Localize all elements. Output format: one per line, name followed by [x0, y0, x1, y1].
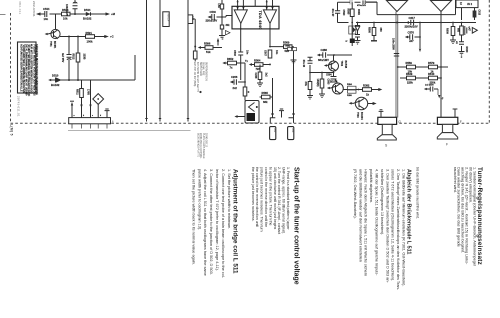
transistor T551: [51, 29, 60, 38]
terminal down arrow: [419, 49, 421, 53]
resistor R653: [243, 87, 247, 96]
svg-text:1k: 1k: [431, 70, 434, 74]
svg-text:R609: R609: [446, 28, 449, 34]
ground: [459, 52, 465, 56]
wire: [97, 104, 99, 117]
resistor R652: [228, 61, 237, 65]
bracket connector: [270, 118, 293, 123]
svg-text:R595: R595: [347, 9, 350, 15]
svg-text:rauschfrei wird.: rauschfrei wird.: [453, 167, 457, 193]
capacitor C544: [45, 11, 47, 17]
svg-text:2. Connect one test probe of a: 2. Connect one test probe of a twin beam…: [221, 169, 225, 279]
svg-text:51k: 51k: [206, 50, 211, 54]
svg-text:1k: 1k: [366, 92, 369, 96]
svg-text:NUR MIT ISOLIERTEM WERKZEUG AU: NUR MIT ISOLIERTEM WERKZEUG AUSGE-: [30, 44, 33, 94]
speaker LS1 stub: [379, 110, 384, 118]
svg-text:C266: C266: [231, 75, 238, 79]
svg-text:3. Den zweiten Tastkopf zwisch: 3. Den zweiten Tastkopf zwischen den Dio…: [385, 169, 389, 283]
svg-text:u07: u07: [409, 39, 414, 43]
svg-text:R569: R569: [283, 41, 290, 45]
terminal arrow: [208, 16, 211, 19]
module zigzag: [249, 103, 255, 112]
op-amp U1 box TDA4940: [232, 6, 279, 29]
diode D544: [86, 12, 91, 16]
svg-text:10n: 10n: [275, 50, 278, 55]
wire loop top: [338, 2, 477, 22]
ground bar: [371, 40, 377, 42]
terminal into module: [236, 116, 245, 118]
svg-text:47u 4P: 47u 4P: [331, 9, 334, 17]
wire x272 drop: [260, 65, 273, 118]
svg-text:R511: R511: [76, 89, 79, 95]
resistor R580: [373, 23, 375, 41]
svg-text:R564: R564: [254, 59, 261, 63]
ground: [355, 41, 361, 45]
svg-text:+F: +F: [441, 99, 444, 101]
svg-text:Hinweis: Nach dem Abgleich die: Hinweis: Nach dem Abgleich die Spule L 5…: [364, 169, 368, 276]
svg-text:pulse width (refer to oscillog: pulse width (refer to oscillogram 13).: [197, 169, 201, 230]
svg-text:C613: C613: [478, 10, 480, 16]
arrow mark: [80, 105, 82, 109]
svg-text:10k: 10k: [63, 16, 68, 20]
svg-text:C576: C576: [408, 30, 415, 34]
svg-text:schließen (Oszillogramm 13 bea: schließen (Oszillogramm 13 beachten).: [380, 169, 384, 235]
bracket hooks: [271, 112, 295, 118]
svg-text:the control in the reverse dir: the control in the reverse direction unt…: [255, 167, 259, 227]
text english col2 body: [191, 169, 230, 279]
left column x310: [308, 57, 313, 95]
svg-text:1n5 250V: 1n5 250V: [425, 85, 434, 87]
svg-text:223B: 223B: [83, 54, 86, 60]
pcb label text: [197, 133, 207, 159]
svg-text:R652: R652: [227, 57, 234, 61]
resistor R284 R286: [348, 86, 357, 89]
capacitor C268: [258, 72, 262, 80]
svg-text:68k: 68k: [263, 100, 268, 104]
capacitor C546: [73, 0, 78, 14]
svg-text:203: 203: [291, 128, 294, 133]
svg-text:BEDIENUNGS-PLATTE: BEDIENUNGS-PLATTE: [197, 133, 200, 157]
wire row y78: [400, 77, 441, 79]
svg-text:7x: 7x: [230, 66, 233, 70]
terminal arrow +M: [103, 13, 107, 15]
resistor R511: [80, 89, 84, 98]
wire x222 column: [221, 0, 223, 36]
svg-text:L59: L59: [217, 4, 220, 9]
svg-text:D510: D510: [52, 74, 59, 78]
svg-text:R623: R623: [465, 47, 468, 53]
wire out tip 2: [269, 23, 271, 64]
svg-text:F: F: [446, 143, 448, 147]
pin wires top 2: [267, 0, 273, 10]
svg-text:R580: R580: [368, 27, 371, 33]
coil L59: [220, 4, 223, 9]
svg-text:5k6: 5k6: [285, 49, 290, 53]
resistor R512: [76, 53, 80, 62]
svg-text:C584: C584: [326, 74, 332, 77]
svg-text:10k: 10k: [408, 70, 413, 74]
svg-text:15) anti-clockwise until noise: 15) anti-clockwise until noise just begi…: [273, 167, 277, 230]
svg-text:R565: R565: [262, 91, 269, 95]
svg-text:k: k: [345, 41, 348, 43]
svg-text:R512: R512: [72, 54, 75, 60]
svg-text:SUPPLY AND: SUPPLY AND: [199, 62, 202, 76]
terminal base: [329, 87, 331, 89]
resistor R521: [86, 35, 95, 39]
svg-text:470u/16V: 470u/16V: [357, 4, 367, 7]
wire stub to IC: [226, 15, 232, 17]
ground: [307, 96, 313, 100]
IC2 box: [377, 0, 456, 15]
svg-text:29743-011.01: 29743-011.01: [17, 96, 21, 117]
dashed border right: [488, 0, 490, 123]
terminal arrow left: [38, 13, 42, 15]
capacitor C288: [323, 52, 326, 58]
speaker LS1 box: [378, 117, 397, 124]
wire y80: [50, 79, 135, 81]
terminal arrow: [222, 62, 225, 65]
pin wires top 1: [238, 0, 256, 10]
pcb edge line: [68, 130, 191, 132]
svg-text:2200u/16V: 2200u/16V: [405, 25, 418, 29]
svg-text:C540: C540: [210, 10, 217, 14]
svg-text:EXT./INT. DC 607 (BVB): EXT./INT. DC 607 (BVB): [193, 62, 195, 87]
capacitor top: [350, 0, 352, 4]
svg-text:PLATE FLACH-SIGNALE: PLATE FLACH-SIGNALE: [202, 133, 205, 159]
svg-text:1. Set the picture width to mi: 1. Set the picture width to minimum.: [227, 169, 231, 229]
capacitor C566: [238, 52, 243, 59]
svg-text:und die Bildbreite wieder auf: und die Bildbreite wieder auf den Normal…: [358, 169, 362, 262]
svg-text:u47: u47: [468, 27, 471, 32]
resistor R596: [205, 46, 213, 50]
svg-text:UHF-range, approx. 60 dBuV aer: UHF-range, approx. 60 dBuV aerial signal…: [282, 167, 286, 234]
svg-text:Adjustment of the bridge coil: Adjustment of the bridge coil L 511: [232, 169, 239, 274]
svg-text:10n: 10n: [246, 50, 249, 55]
text german col1 body: [453, 167, 477, 266]
svg-text:3B2-011: 3B2-011: [18, 1, 22, 15]
svg-text:68n/1MV: 68n/1MV: [318, 58, 329, 62]
wire pin drop: [90, 80, 92, 118]
svg-text:+M: +M: [111, 12, 116, 16]
svg-text:F: F: [460, 120, 462, 124]
resistor R595: [351, 2, 353, 22]
junction: [77, 79, 79, 81]
svg-text:lector of transistor T 672 (re: lector of transistor T 672 (refer to osc…: [215, 169, 219, 271]
junction: [68, 36, 70, 38]
terminal arrow +C: [103, 36, 106, 38]
top right connector box: [456, 0, 478, 8]
svg-text:2. Turn the control R 341 (IF-: 2. Turn the control R 341 (IF-Ampl., con…: [277, 167, 281, 234]
signal triangle right: [472, 28, 477, 34]
connector strip bar: [69, 118, 111, 124]
svg-text:30k: 30k: [226, 25, 231, 27]
wire y46 right: [270, 47, 294, 118]
svg-text:R284: R284: [347, 83, 353, 86]
diode D593: [355, 23, 360, 35]
edge tick: [0, 14, 6, 16]
wire long vertical C: [187, 0, 189, 122]
svg-text:R521: R521: [86, 31, 93, 35]
svg-text:AV 2: AV 2: [467, 3, 473, 6]
speaker LS2 horn: [442, 124, 452, 132]
svg-text:d: d: [100, 115, 101, 117]
svg-text:BF451: BF451: [53, 41, 56, 49]
transistor T563: [355, 97, 367, 109]
wire x245 drop: [244, 63, 246, 101]
speaker LS2 stub: [453, 109, 458, 117]
speaker LS2 box: [437, 117, 457, 124]
svg-text:7k5: 7k5: [256, 67, 261, 71]
signal triangle: [226, 31, 231, 35]
svg-text:T551: T551: [49, 41, 52, 47]
svg-text:C617: C617: [409, 16, 416, 20]
svg-text:Ton ZF: Ton ZF: [167, 13, 171, 21]
svg-text:SIGNAL PRE: SIGNAL PRE: [202, 62, 205, 76]
junction: [74, 13, 76, 15]
svg-text:2x2: 2x2: [265, 73, 268, 78]
svg-text:WB: WB: [457, 28, 460, 32]
note box: [18, 42, 37, 93]
capacitor C573: [459, 42, 464, 45]
svg-text:BC548: BC548: [344, 61, 347, 69]
terminal arrow: [317, 54, 320, 57]
wire y55 C288: [319, 54, 353, 56]
wire speaker1 drop: [396, 12, 398, 118]
svg-text:170R: 170R: [87, 89, 90, 95]
svg-text:the picture just becomes noise: the picture just becomes noiseless.: [251, 167, 255, 221]
svg-text:TDA 4940: TDA 4940: [258, 11, 262, 30]
capacitor C512: [67, 55, 72, 60]
junction: [68, 79, 70, 81]
svg-text:GERAETES NETZSTECKER ZIEHEN! M: GERAETES NETZSTECKER ZIEHEN! MASSE: [35, 44, 38, 95]
terminal arrow: [48, 79, 51, 82]
svg-text:C567: C567: [264, 50, 267, 56]
wire collector: [55, 14, 57, 30]
svg-text:C544: C544: [43, 7, 50, 11]
svg-text:2. Den Tastkopf eines Zweistra: 2. Den Tastkopf eines Zweistrahloszillos…: [396, 169, 400, 291]
svg-text:a: a: [74, 115, 76, 117]
capacitor C582: [308, 61, 313, 64]
capacitor C266: [232, 81, 246, 83]
terminal arrow: [249, 63, 252, 66]
wire far right top: [461, 0, 463, 26]
svg-text:polarität abgleichen.: polarität abgleichen.: [369, 169, 373, 203]
wire: [68, 37, 70, 81]
diode D591: [351, 22, 353, 24]
svg-text:C566: C566: [233, 50, 236, 56]
svg-text:R286: R286: [347, 95, 353, 97]
elco C618: [460, 26, 464, 35]
wire long vertical A: [146, 0, 148, 122]
resistor pair R562: [288, 48, 292, 51]
capacitor C584: [331, 71, 338, 84]
resistor R574: [320, 79, 324, 88]
op-amp triangle 3: [387, 1, 408, 12]
transistor T564: [332, 83, 343, 94]
svg-text:2x2: 2x2: [233, 86, 238, 90]
module box: [245, 101, 259, 124]
resistor R539: [407, 76, 416, 80]
svg-text:b: b: [83, 115, 85, 117]
svg-text:220u/16V: 220u/16V: [206, 19, 218, 23]
cluster near speaker: [426, 88, 439, 90]
wire corner up: [134, 55, 136, 80]
svg-text:100k: 100k: [87, 40, 93, 44]
resistor R569: [284, 45, 293, 49]
svg-text:202: 202: [273, 128, 276, 133]
wire out tip 1: [240, 23, 242, 80]
svg-text:4u7 35V: 4u7 35V: [61, 53, 64, 63]
svg-text:100n 250V: 100n 250V: [392, 38, 395, 50]
svg-text:(R 7302, Ost-West-Baustein).: (R 7302, Ost-West-Baustein).: [353, 169, 357, 219]
resistor R544: [62, 12, 71, 16]
bar pins below: [72, 124, 107, 129]
svg-text:+C: +C: [110, 34, 114, 38]
svg-text:SUPERVISOR EN: SUPERVISOR EN: [205, 62, 207, 81]
svg-text:680: 680: [379, 28, 382, 33]
wire y47 R596: [200, 47, 223, 49]
arrow mark: [89, 105, 91, 109]
wire: [77, 37, 79, 81]
svg-text:R579: R579: [428, 61, 435, 65]
wire h y72: [310, 72, 334, 74]
diode D592 black: [350, 39, 355, 44]
svg-text:C288: C288: [321, 48, 328, 52]
svg-text:F13: F13: [191, 16, 194, 21]
wire y17 middle: [210, 16, 227, 18]
capacitor C594: [363, 0, 365, 4]
diode D510: [56, 78, 61, 82]
svg-text:100n 1kV5: 100n 1kV5: [65, 4, 68, 17]
wire long vertical B: [159, 0, 161, 122]
svg-text:202-R341: 202-R341: [32, 1, 36, 17]
svg-text:R382: R382: [363, 84, 370, 88]
wire row y67: [398, 66, 448, 68]
svg-text:27E: 27E: [304, 82, 307, 87]
svg-text:control in the reverse directi: control in the reverse direction until t…: [264, 167, 268, 227]
wire to R284: [343, 89, 379, 91]
svg-text:R559: R559: [406, 61, 413, 65]
svg-text:BC204: BC204: [360, 112, 363, 120]
dashed border left: [10, 13, 12, 123]
capacitor C567: [268, 50, 272, 58]
svg-text:S: S: [385, 144, 388, 148]
svg-text:C593: C593: [342, 10, 345, 16]
svg-text:L(M) 5: L(M) 5: [10, 124, 14, 136]
resistor R573: [308, 82, 312, 90]
resistor R564: [255, 63, 264, 67]
capacitor C595: [355, 35, 360, 41]
svg-text:u1: u1: [455, 41, 458, 44]
ground: [319, 94, 325, 98]
op-amp triangle 4: [431, 1, 452, 12]
terminal arrow: [198, 46, 201, 49]
terminal base: [46, 33, 48, 35]
svg-text:1. Die Bildbreite auf Minimum: 1. Die Bildbreite auf Minimum einstellen…: [402, 169, 406, 286]
svg-text:4. Adjust the coil L 511 so th: 4. Adjust the coil L 511 so that both os…: [203, 169, 207, 276]
ground: [291, 56, 297, 64]
resistor R579: [429, 65, 438, 69]
module black fill: [247, 113, 256, 121]
antenna T: [105, 109, 110, 118]
svg-text:607 7GVHD DC EXT. AGFTH: 607 7GVHD DC EXT. AGFTH: [196, 62, 199, 92]
svg-text:29743-058.13: 29743-058.13: [205, 133, 207, 148]
svg-text:sistors T 672 anschließen (Osz: sistors T 672 anschließen (Oszillogramm …: [391, 169, 395, 281]
resistor R559: [407, 65, 416, 69]
resistor R565: [260, 96, 273, 98]
wire T563 right: [368, 103, 374, 105]
wire: [461, 35, 463, 52]
svg-text:Start-up of the tuner control: Start-up of the tuner control voltage: [293, 167, 300, 285]
resistor R591: [220, 25, 223, 29]
wire R511 drop: [81, 80, 83, 118]
svg-text:10n: 10n: [44, 17, 49, 21]
resistor R609: [452, 23, 454, 41]
svg-text:47u 40: 47u 40: [302, 60, 305, 68]
transistor T562: [329, 61, 339, 71]
resistor R382: [363, 88, 372, 92]
junction: [77, 36, 79, 38]
pin ticks: [159, 118, 189, 120]
svg-text:C268: C268: [254, 73, 257, 79]
svg-text:300R: 300R: [357, 9, 360, 15]
terminal arrow: [378, 88, 382, 91]
capacitor C540: [212, 14, 215, 20]
elco C613: [474, 8, 476, 11]
text english col1 body: [251, 167, 290, 234]
svg-text:Then set the picture width bac: Then set the picture width back to its n…: [191, 169, 195, 265]
resistor R540: [429, 76, 438, 80]
svg-text:100(W): 100(W): [316, 79, 319, 87]
op-amp triangle 1: [234, 10, 247, 24]
wire y63 to R652: [224, 62, 245, 64]
svg-text:D544: D544: [84, 8, 91, 12]
terminal base T563: [351, 102, 355, 104]
svg-text:c: c: [92, 115, 93, 117]
terminal base: [326, 65, 328, 67]
svg-text:Tx: Tx: [245, 60, 248, 63]
wire top left y14: [37, 13, 107, 15]
label box C: [188, 15, 193, 24]
svg-text:picture just becomes noiseless: picture just becomes noiseless. Then tur…: [260, 167, 264, 232]
ground: [219, 36, 225, 40]
resistor R641: [193, 51, 197, 59]
ground: [450, 40, 456, 44]
svg-text:T562: T562: [340, 61, 343, 67]
node dot: [199, 91, 201, 93]
wire stub x195: [193, 19, 196, 62]
middle column x322: [321, 73, 323, 95]
op-amp triangle 2: [263, 10, 276, 24]
svg-text:3. Connect the other test prob: 3. Connect the other test probe to the j…: [209, 169, 213, 275]
terminal up arrow: [71, 105, 73, 118]
svg-text:BA182: BA182: [51, 83, 60, 87]
text german col2 body: [353, 169, 406, 291]
svg-text:BA182: BA182: [83, 16, 92, 20]
wire speaker2 drop: [440, 12, 442, 118]
terminal up arrow: [217, 41, 219, 46]
svg-text:T563: T563: [356, 112, 359, 118]
svg-text:to appear in the picture. Then: to appear in the picture. Then turn the: [268, 167, 272, 226]
svg-text:C583: C583: [327, 79, 330, 85]
svg-text:4. Mit der Spule L 511 beide O: 4. Mit der Spule L 511 beide Oszillogram…: [375, 169, 379, 276]
capacitor C617: [408, 22, 421, 24]
svg-text:29743-059.01 CONTROL: 29743-059.01 CONTROL: [199, 133, 201, 159]
svg-text:G: G: [398, 120, 401, 124]
capacitor C576: [407, 23, 421, 49]
svg-text:220k: 220k: [407, 81, 413, 85]
wire emitter row y36: [60, 36, 103, 38]
